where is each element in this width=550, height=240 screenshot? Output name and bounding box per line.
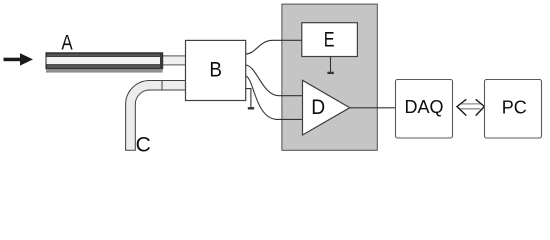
input arrow — [4, 53, 34, 65]
svg-text:PC: PC — [502, 98, 527, 118]
box E — [302, 23, 358, 57]
box PC — [485, 80, 542, 139]
amplifier triangle D — [303, 80, 350, 135]
gray enclosure box — [282, 4, 377, 150]
wire D output to DAQ — [350, 107, 395, 109]
svg-text:C: C — [136, 133, 151, 156]
wire B to E — [246, 40, 302, 54]
tube joint — [161, 81, 163, 91]
ground stub below B — [246, 89, 255, 109]
box B — [186, 40, 246, 100]
svg-text:D: D — [311, 96, 325, 119]
double arrow DAQ-PC — [457, 99, 484, 115]
tube C — [126, 81, 186, 151]
wire B to D lower input — [246, 76, 303, 119]
ground stub below E — [327, 57, 333, 73]
wire B to D upper input — [246, 65, 303, 96]
box DAQ — [396, 80, 453, 139]
svg-text:A: A — [61, 31, 72, 54]
svg-text:DAQ: DAQ — [404, 97, 443, 117]
fiber core (inner bar) — [160, 56, 186, 65]
svg-text:B: B — [209, 59, 222, 82]
svg-text:E: E — [324, 29, 335, 52]
cantilever bar A — [46, 53, 163, 73]
